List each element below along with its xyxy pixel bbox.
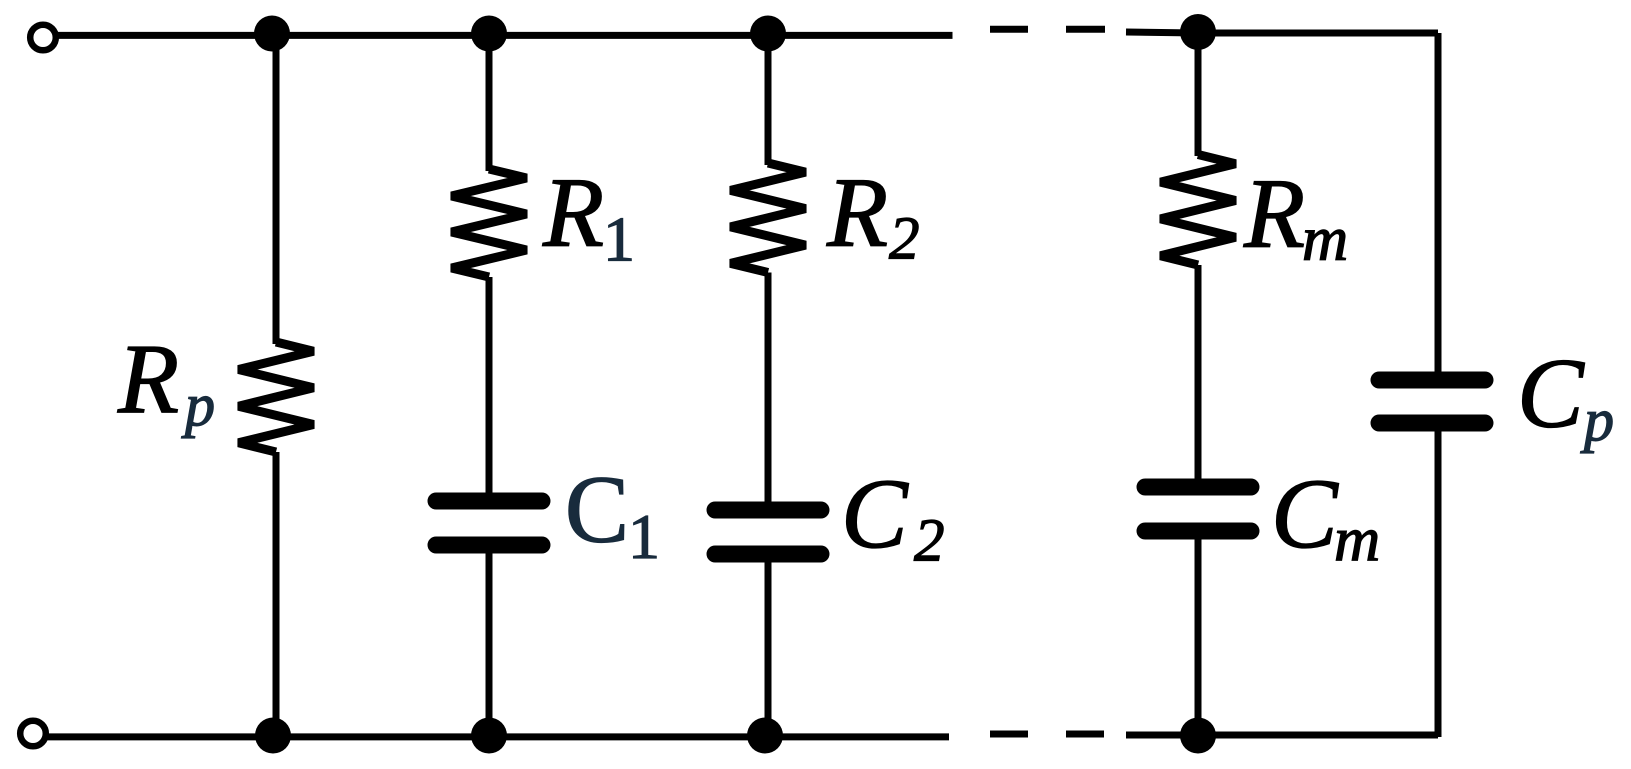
svg-text:m: m — [1334, 504, 1380, 575]
wire: R2-C2 middle lead — [765, 273, 772, 507]
capacitor C1 bottom plate — [436, 537, 542, 554]
resistor Rm — [1161, 155, 1236, 266]
wire: top rail right segment to corner — [1126, 32, 1435, 35]
capacitor Cp bottom plate — [1379, 415, 1485, 432]
capacitor Cm top plate — [1145, 479, 1251, 496]
svg-text:p: p — [181, 372, 215, 438]
svg-text:2: 2 — [914, 508, 945, 575]
wire: Rp branch upper lead — [273, 35, 280, 344]
svg-text:p: p — [1580, 387, 1614, 453]
resistor Rp — [239, 342, 314, 452]
wire: top rail dash 2 — [1066, 26, 1105, 33]
node: bottom junction at Rp — [255, 718, 291, 754]
wire: top rail dash 1 — [990, 26, 1028, 33]
svg-text:R: R — [826, 157, 888, 268]
wire: R2 branch upper lead — [765, 35, 772, 165]
svg-text:C: C — [1517, 338, 1585, 449]
wire: top rail solid left segment — [57, 32, 953, 39]
wire: Cp lower lead — [1435, 427, 1442, 737]
node: bottom junction at R1 — [471, 718, 507, 754]
bottom terminal (open circle) — [20, 721, 46, 747]
capacitor Cp top plate — [1379, 372, 1485, 389]
svg-text:C: C — [1271, 458, 1339, 569]
node: bottom junction at R2 — [747, 718, 783, 754]
resistor R1 — [452, 169, 527, 277]
wire: Cm lower lead — [1195, 535, 1202, 737]
wire: bottom rail dash 1 — [990, 731, 1028, 738]
svg-text:C: C — [841, 458, 909, 569]
wire: R1 branch upper lead — [486, 35, 493, 171]
node: top junction at R2 — [750, 16, 786, 52]
capacitor C1 top plate — [436, 493, 542, 510]
node: top junction at Rm — [1180, 14, 1216, 50]
node: top junction at Rp — [254, 16, 290, 52]
wire: bottom rail dash 2 — [1066, 731, 1104, 738]
wire: C2 lower lead — [765, 558, 772, 737]
wire: C1 lower lead — [486, 549, 493, 737]
svg-text:m: m — [1302, 203, 1348, 274]
top terminal (open circle) — [30, 25, 56, 51]
svg-text:R: R — [1243, 158, 1305, 269]
svg-text:1: 1 — [628, 501, 660, 572]
capacitor Cm bottom plate — [1145, 523, 1251, 540]
wire: R1-C1 middle lead — [486, 277, 493, 497]
svg-text:C: C — [565, 456, 629, 563]
svg-text:R: R — [542, 157, 604, 268]
wire: Rp branch lower lead — [273, 452, 280, 737]
svg-text:2: 2 — [889, 206, 920, 273]
wire: Rm branch upper lead — [1195, 35, 1202, 156]
wire: Rm-Cm middle lead — [1195, 265, 1202, 483]
svg-text:R: R — [117, 323, 179, 434]
node: top junction at R1 — [471, 16, 507, 52]
wire: bottom rail right segment to corner — [1126, 733, 1435, 735]
capacitor C2 top plate — [715, 502, 821, 519]
svg-text:1: 1 — [603, 204, 635, 275]
resistor R2 — [731, 163, 806, 273]
wire: bottom rail solid left segment — [47, 733, 949, 740]
capacitor C2 bottom plate — [715, 546, 821, 563]
node: bottom junction at Rm — [1180, 718, 1216, 754]
wire: Cp branch upper lead — [1435, 33, 1442, 375]
